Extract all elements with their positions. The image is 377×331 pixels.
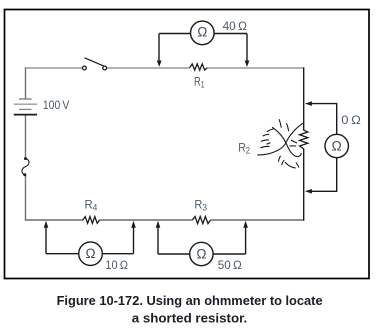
svg-text:100 V: 100 V: [43, 98, 69, 112]
svg-text:Ω: Ω: [197, 24, 207, 39]
svg-text:10 Ω: 10 Ω: [105, 258, 128, 272]
svg-text:40 Ω: 40 Ω: [223, 19, 247, 33]
svg-text:Ω: Ω: [85, 246, 95, 261]
svg-text:Figure 10-172. Using an ohmmet: Figure 10-172. Using an ohmmeter to loca…: [57, 293, 323, 308]
svg-text:a shorted resistor.: a shorted resistor.: [132, 311, 248, 326]
svg-text:0 Ω: 0 Ω: [341, 113, 361, 127]
svg-text:50 Ω: 50 Ω: [218, 258, 242, 272]
svg-text:Ω: Ω: [332, 138, 342, 153]
svg-text:Ω: Ω: [196, 246, 206, 261]
